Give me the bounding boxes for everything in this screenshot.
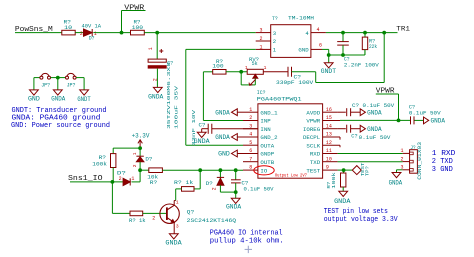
svg-text:TR1: TR1 xyxy=(396,25,410,32)
svg-text:GNDA: GNDA xyxy=(165,239,182,246)
svg-text:GNDA: GNDA xyxy=(226,203,242,210)
svg-text:8: 8 xyxy=(249,165,252,171)
svg-text:1: 1 xyxy=(245,65,248,71)
svg-text:D?: D? xyxy=(89,34,95,41)
svg-text:VPWR: VPWR xyxy=(306,118,320,125)
svg-text:GNDA: GNDA xyxy=(215,134,230,141)
svg-text:GNDA: GNDA xyxy=(367,126,382,133)
svg-text:330pF 100V: 330pF 100V xyxy=(276,79,314,86)
svg-text:2: 2 xyxy=(80,31,83,37)
svg-text:11: 11 xyxy=(326,148,332,154)
svg-text:10: 10 xyxy=(326,156,332,162)
svg-text:33nF 10V: 33nF 10V xyxy=(191,110,197,146)
svg-text:GND: Power source ground: GND: Power source ground xyxy=(11,122,110,130)
svg-text:3: 3 xyxy=(273,30,276,37)
svg-text:TM-10MH: TM-10MH xyxy=(288,14,315,21)
svg-text:PGA460TPWQ1: PGA460TPWQ1 xyxy=(257,96,302,103)
svg-text:output voltage 3.3V: output voltage 3.3V xyxy=(324,216,399,224)
svg-text:1: 1 xyxy=(131,176,134,182)
svg-text:RXD: RXD xyxy=(310,151,321,158)
svg-text:16: 16 xyxy=(326,107,332,113)
svg-text:2: 2 xyxy=(211,187,217,190)
svg-text:1: 1 xyxy=(148,47,154,50)
svg-text:1: 1 xyxy=(176,200,179,206)
svg-text:R? 1k: R? 1k xyxy=(129,217,146,224)
svg-text:DECPL: DECPL xyxy=(303,134,320,141)
svg-text:INP: INP xyxy=(260,118,271,125)
svg-text:GNDT: GNDT xyxy=(77,96,91,103)
svg-text:IOREG: IOREG xyxy=(303,126,321,133)
svg-text:1: 1 xyxy=(260,44,263,50)
svg-text:JP?: JP? xyxy=(41,81,50,88)
svg-text:JP?: JP? xyxy=(67,81,76,88)
svg-text:1: 1 xyxy=(264,65,267,71)
svg-text:2: 2 xyxy=(260,36,263,42)
svg-text:15: 15 xyxy=(326,115,332,121)
svg-text:R?: R? xyxy=(150,179,158,186)
svg-text:3 GND: 3 GND xyxy=(432,166,453,174)
svg-text:0.1uF 50V: 0.1uF 50V xyxy=(359,134,391,141)
svg-text:TEST pin low sets: TEST pin low sets xyxy=(324,208,388,216)
svg-text:9: 9 xyxy=(326,165,329,171)
svg-text:2: 2 xyxy=(273,38,276,45)
svg-text:7: 7 xyxy=(249,156,252,162)
svg-text:2SC2412KT146Q: 2SC2412KT146Q xyxy=(187,217,237,224)
svg-text:GNDA: GNDA xyxy=(431,118,446,125)
svg-text:C?: C? xyxy=(351,133,358,140)
svg-text:J?: J? xyxy=(410,145,415,151)
svg-text:100k: 100k xyxy=(92,160,107,167)
svg-text:2.2nF 100V: 2.2nF 100V xyxy=(344,62,379,69)
svg-text:1: 1 xyxy=(249,107,252,113)
svg-text:C?: C? xyxy=(199,122,207,129)
svg-text:3: 3 xyxy=(260,28,263,34)
svg-text:13: 13 xyxy=(326,132,332,138)
svg-text:T?: T? xyxy=(272,15,278,22)
svg-text:GND: GND xyxy=(298,47,309,54)
svg-text:100uF 35V: 100uF 35V xyxy=(173,86,179,129)
svg-text:1: 1 xyxy=(132,152,138,155)
svg-text:R? 1k: R? 1k xyxy=(174,179,194,186)
svg-text:C? 0.1uF 50V: C? 0.1uF 50V xyxy=(352,102,395,109)
svg-text:GND: GND xyxy=(28,95,40,102)
svg-text:100k: 100k xyxy=(331,172,337,188)
svg-text:2: 2 xyxy=(400,156,403,162)
svg-text:Output Low 2V7: Output Low 2V7 xyxy=(275,174,307,178)
svg-text:AVDD: AVDD xyxy=(306,109,320,116)
svg-text:2: 2 xyxy=(132,164,138,167)
svg-text:1 RXD: 1 RXD xyxy=(432,150,456,158)
svg-text:5k: 5k xyxy=(252,60,258,67)
svg-text:Q?: Q? xyxy=(187,208,195,215)
svg-text:0.1uF 50V: 0.1uF 50V xyxy=(244,186,274,193)
svg-text:GND: GND xyxy=(218,151,230,158)
svg-text:2: 2 xyxy=(119,176,122,182)
svg-text:2: 2 xyxy=(152,215,155,221)
svg-text:IO: IO xyxy=(260,167,268,174)
svg-text:GNDA: GNDA xyxy=(367,109,382,116)
svg-text:TXD: TXD xyxy=(310,159,321,166)
svg-text:3: 3 xyxy=(176,224,179,230)
svg-text:GNDP: GNDP xyxy=(260,151,274,158)
svg-text:35TZV100M6.3X8: 35TZV100M6.3X8 xyxy=(166,62,172,129)
svg-text:D?: D? xyxy=(145,155,153,162)
svg-text:2 TXD: 2 TXD xyxy=(432,158,453,166)
svg-text:SCLK: SCLK xyxy=(306,142,320,149)
svg-text:VPWR: VPWR xyxy=(124,4,144,12)
svg-text:GNDA: GNDA xyxy=(51,95,65,102)
svg-text:100: 100 xyxy=(212,63,224,70)
svg-text:CONN_01X03: CONN_01X03 xyxy=(416,141,423,179)
svg-text:pullup 4-10k ohm.: pullup 4-10k ohm. xyxy=(210,238,284,246)
svg-text:TEST: TEST xyxy=(306,167,320,174)
svg-text:22k: 22k xyxy=(369,43,377,50)
svg-text:4: 4 xyxy=(249,132,252,138)
svg-text:GND_1: GND_1 xyxy=(260,109,278,116)
svg-text:GNDT: GNDT xyxy=(321,68,337,75)
svg-text:14: 14 xyxy=(326,123,332,129)
svg-text:2: 2 xyxy=(153,78,159,81)
svg-text:GND_2: GND_2 xyxy=(260,134,277,141)
svg-text:D?: D? xyxy=(206,180,214,187)
svg-text:TP?: TP? xyxy=(365,166,371,176)
svg-text:OUTB: OUTB xyxy=(260,159,274,166)
svg-text:6: 6 xyxy=(249,148,252,154)
svg-text:0.1uF 50V: 0.1uF 50V xyxy=(409,110,441,117)
svg-text:2: 2 xyxy=(249,115,252,121)
svg-text:40V 1A: 40V 1A xyxy=(82,23,102,30)
svg-text:5: 5 xyxy=(249,140,252,146)
svg-text:6: 6 xyxy=(319,42,322,48)
svg-text:GNDA: GNDA xyxy=(334,198,351,205)
svg-text:1: 1 xyxy=(400,148,403,154)
svg-text:10: 10 xyxy=(64,24,73,31)
svg-text:INN: INN xyxy=(260,126,270,133)
svg-text:PGA460 IO internal: PGA460 IO internal xyxy=(210,230,283,238)
svg-text:+3.3V: +3.3V xyxy=(132,132,150,139)
svg-text:GNDA: GNDA xyxy=(389,179,403,186)
svg-text:OUTA: OUTA xyxy=(260,142,274,149)
svg-text:GNDA: GNDA xyxy=(215,109,230,116)
svg-text:GNDA: GNDA xyxy=(148,94,164,101)
svg-text:100: 100 xyxy=(132,24,144,31)
svg-text:12: 12 xyxy=(326,140,332,146)
svg-text:4: 4 xyxy=(317,27,320,33)
